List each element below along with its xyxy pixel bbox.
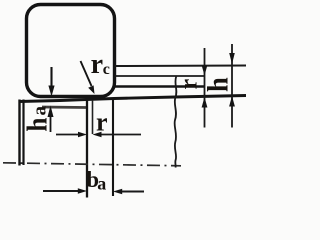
svg-text:a: a	[97, 173, 106, 193]
svg-text:a: a	[30, 106, 51, 116]
svg-text:c: c	[103, 61, 110, 78]
svg-text:h: h	[21, 118, 53, 132]
svg-text:r: r	[96, 108, 108, 137]
svg-text:r: r	[175, 79, 203, 90]
svg-text:r: r	[91, 49, 103, 80]
svg-text:h: h	[202, 77, 235, 92]
